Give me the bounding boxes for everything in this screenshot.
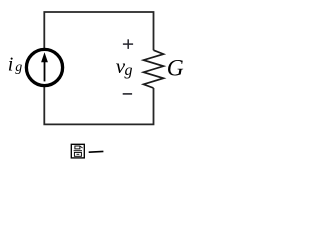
svg-text:g: g [15,60,22,75]
svg-text:i: i [8,54,14,76]
svg-text:g: g [125,62,133,79]
svg-text:G: G [167,56,184,82]
